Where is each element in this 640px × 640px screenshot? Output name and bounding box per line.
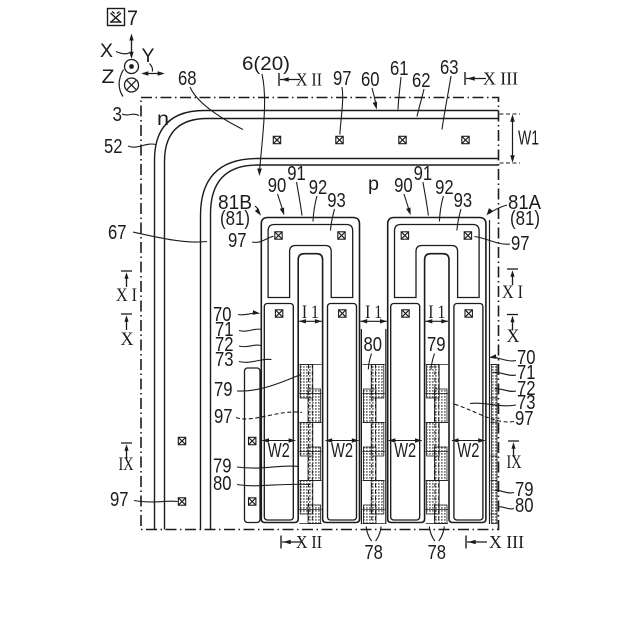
svg-text:X II: X II	[296, 532, 322, 552]
svg-text:97: 97	[214, 406, 233, 428]
svg-text:Y: Y	[142, 46, 155, 67]
svg-text:Z: Z	[102, 67, 115, 88]
svg-text:92: 92	[435, 177, 454, 199]
svg-text:W2: W2	[394, 440, 416, 462]
svg-text:97: 97	[228, 230, 247, 252]
svg-text:97: 97	[110, 489, 129, 511]
svg-text:78: 78	[364, 542, 383, 564]
svg-text:67: 67	[108, 222, 127, 244]
svg-text:78: 78	[428, 542, 447, 564]
svg-text:80: 80	[213, 473, 232, 495]
svg-text:W1: W1	[518, 128, 539, 150]
svg-text:68: 68	[178, 68, 197, 90]
svg-text:(81): (81)	[510, 208, 540, 230]
svg-text:52: 52	[104, 136, 123, 158]
svg-text:92: 92	[309, 177, 328, 199]
svg-text:97: 97	[511, 233, 530, 255]
svg-text:97: 97	[333, 68, 352, 90]
svg-text:60: 60	[361, 69, 380, 91]
svg-text:61: 61	[390, 58, 409, 80]
svg-text:6(20): 6(20)	[242, 53, 290, 75]
svg-text:X I: X I	[116, 285, 137, 306]
svg-text:IX: IX	[119, 454, 134, 475]
svg-text:p: p	[368, 174, 379, 195]
svg-text:93: 93	[327, 190, 346, 212]
svg-text:I 1: I 1	[428, 302, 445, 323]
svg-text:W2: W2	[268, 440, 290, 462]
svg-text:W2: W2	[331, 440, 353, 462]
svg-text:7: 7	[127, 7, 138, 30]
svg-text:80: 80	[364, 334, 383, 356]
svg-text:X III: X III	[489, 532, 524, 552]
svg-text:97: 97	[515, 408, 534, 430]
svg-text:73: 73	[215, 349, 234, 371]
svg-text:IX: IX	[507, 452, 522, 473]
svg-text:90: 90	[268, 175, 287, 197]
svg-text:I 1: I 1	[365, 302, 382, 323]
svg-text:91: 91	[287, 163, 306, 185]
svg-text:X III: X III	[483, 69, 518, 89]
svg-text:62: 62	[412, 70, 431, 92]
svg-text:91: 91	[414, 163, 433, 185]
svg-text:(81): (81)	[220, 208, 250, 230]
svg-text:3: 3	[113, 104, 123, 126]
svg-text:X: X	[100, 41, 113, 62]
svg-text:63: 63	[440, 57, 459, 79]
svg-text:X II: X II	[296, 70, 322, 90]
svg-text:X: X	[121, 329, 134, 350]
svg-text:79: 79	[427, 334, 446, 356]
svg-text:X I: X I	[502, 282, 523, 303]
svg-text:W2: W2	[457, 440, 479, 462]
svg-text:I 1: I 1	[302, 302, 319, 323]
svg-text:n: n	[157, 109, 169, 130]
svg-text:X: X	[507, 326, 520, 347]
svg-text:90: 90	[394, 175, 413, 197]
svg-text:93: 93	[454, 190, 473, 212]
svg-text:80: 80	[515, 495, 534, 517]
svg-text:79: 79	[214, 379, 233, 401]
